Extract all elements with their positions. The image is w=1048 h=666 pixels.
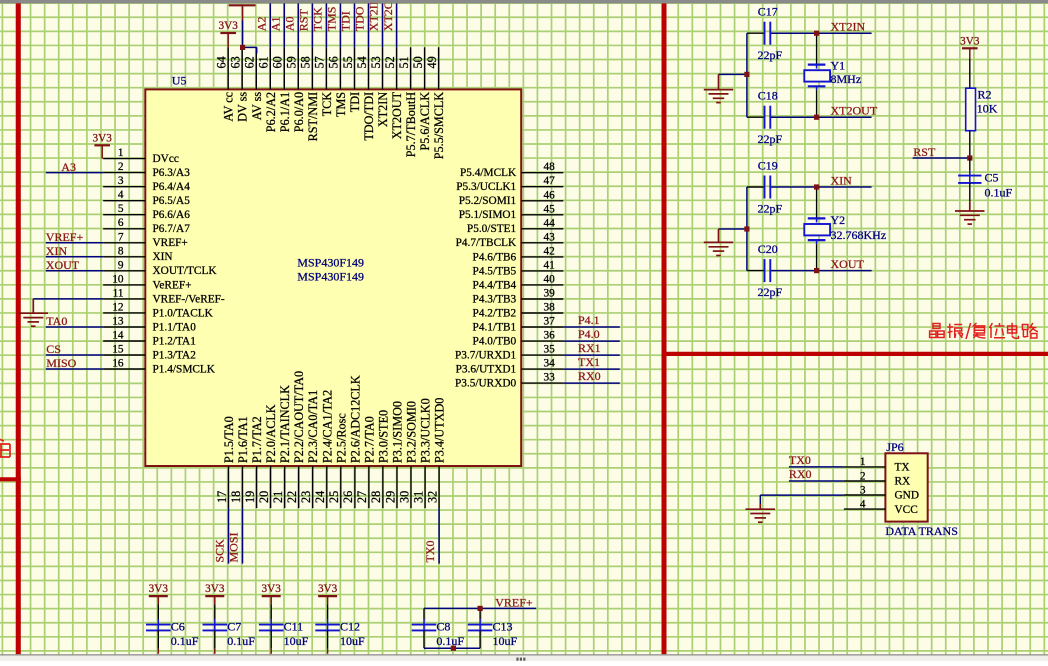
U5 pin 41 (P4.5/TB5) xyxy=(473,259,564,277)
U5 pin 48 (P5.4/MCLK) xyxy=(460,161,563,179)
wire net RX0 xyxy=(789,480,844,482)
wire net VREF+ (pin 7) xyxy=(46,242,103,244)
IC U5 MSP430F149 body xyxy=(145,89,521,466)
wire XIN row xyxy=(747,186,765,188)
capacitor C17 xyxy=(758,5,783,62)
svg-text:A2: A2 xyxy=(255,17,269,32)
svg-text:P1.5/TA0: P1.5/TA0 xyxy=(222,416,236,463)
svg-text:18: 18 xyxy=(229,491,243,503)
svg-text:SCK: SCK xyxy=(212,539,226,563)
wire net A0 (pin 59 to top) xyxy=(297,3,299,48)
svg-text:P1.6/TA1: P1.6/TA1 xyxy=(236,416,250,463)
U5 pin 52 (XT2OUT) xyxy=(383,47,404,139)
svg-text:6: 6 xyxy=(118,217,124,229)
svg-text:U5: U5 xyxy=(172,74,187,88)
svg-text:0.1uF: 0.1uF xyxy=(227,634,255,648)
U5 pin 43 (P4.7/TBCLK) xyxy=(456,231,564,249)
junction bottom wire xyxy=(451,646,456,651)
svg-text:CS: CS xyxy=(46,342,61,356)
U5 pin 14 (P1.2/TA1) xyxy=(103,330,196,348)
svg-text:36: 36 xyxy=(544,330,556,342)
U5 pin 26 (P2.6/ADC12CLK) xyxy=(341,375,362,508)
JP6 pin 3 (GND) xyxy=(844,484,919,501)
capacitor C18 xyxy=(758,89,783,146)
section title crystal/reset (Chinese) xyxy=(930,323,1038,339)
svg-text:P3.0/STE0: P3.0/STE0 xyxy=(376,410,390,463)
svg-text:MOSI: MOSI xyxy=(226,532,240,562)
power stub above pin 63 xyxy=(229,4,256,6)
svg-text:22pF: 22pF xyxy=(758,201,783,215)
wire XT2IN row xyxy=(747,32,765,34)
U5 pin 53 (XT2IN) xyxy=(369,47,390,127)
U5 pin 55 (TDI) xyxy=(341,47,362,112)
svg-text:C7: C7 xyxy=(227,620,241,634)
U5 pin 60 (P6.1/A1) xyxy=(271,47,292,132)
svg-text:19: 19 xyxy=(243,491,257,503)
svg-text:2: 2 xyxy=(860,470,866,482)
U5 pin 35 (P3.7/URXD1) xyxy=(455,344,563,362)
svg-text:0.1uF: 0.1uF xyxy=(171,634,199,648)
svg-text:P5.4/MCLK: P5.4/MCLK xyxy=(460,167,517,179)
svg-text:XT2IN: XT2IN xyxy=(376,92,390,127)
wire VREF+ top xyxy=(424,607,536,609)
svg-text:P5.0/STE1: P5.0/STE1 xyxy=(467,223,516,235)
svg-text:TX1: TX1 xyxy=(578,355,600,369)
U5 pin 6 (P6.7/A7) xyxy=(103,217,190,235)
svg-text:P3.1/SIMO0: P3.1/SIMO0 xyxy=(391,401,405,463)
U5 pin 11 (VREF-/VeREF-) xyxy=(103,287,225,305)
svg-text:P2.3/CA0/TA1: P2.3/CA0/TA1 xyxy=(306,390,320,463)
svg-text:4: 4 xyxy=(118,189,124,201)
U5 pin 33 (P3.5/URXD0) xyxy=(455,372,563,390)
U5 pin 16 (P1.4/SMCLK) xyxy=(103,358,216,376)
wire net MISO (pin 16) xyxy=(46,368,103,370)
wire C8-C13 bottom xyxy=(424,647,480,649)
svg-text:25: 25 xyxy=(327,491,341,503)
U5 pin 8 (XIN) xyxy=(103,245,172,263)
U5 pin 42 (P4.6/TB6) xyxy=(473,245,564,263)
svg-text:P3.3/UCLK0: P3.3/UCLK0 xyxy=(419,398,433,463)
svg-text:P2.6/ADC12CLK: P2.6/ADC12CLK xyxy=(348,375,362,463)
wire net TMS (pin 56 to top) xyxy=(339,3,341,48)
svg-text:39: 39 xyxy=(544,288,556,300)
svg-text:P3.2/SOMI0: P3.2/SOMI0 xyxy=(405,401,419,463)
svg-text:31: 31 xyxy=(411,491,425,503)
svg-text:P4.6/TB6: P4.6/TB6 xyxy=(473,251,517,263)
svg-text:P6.6/A6: P6.6/A6 xyxy=(153,209,191,221)
svg-text:RX0: RX0 xyxy=(789,467,812,481)
svg-text:P5.5/SMCLK: P5.5/SMCLK xyxy=(432,92,446,160)
svg-text:64: 64 xyxy=(215,56,229,68)
splitter dots xyxy=(516,658,518,661)
svg-text:P5.3/UCLK1: P5.3/UCLK1 xyxy=(456,181,516,193)
U5 pin 63 (DV ss) xyxy=(229,47,250,122)
U5 pin 57 (TCK) xyxy=(313,47,334,116)
svg-text:33: 33 xyxy=(544,372,556,384)
U5 pin 40 (P4.4/TB4) xyxy=(473,273,564,291)
U5 pin 28 (P3.0/STE0) xyxy=(369,410,390,508)
svg-text:3V3: 3V3 xyxy=(93,132,113,144)
svg-text:29: 29 xyxy=(383,491,397,503)
U5 pin 34 (P3.6/UTXD1) xyxy=(456,358,564,376)
junction XT2OUT xyxy=(814,115,819,120)
svg-text:22pF: 22pF xyxy=(758,48,783,62)
svg-text:13: 13 xyxy=(112,316,124,328)
wire net P4.0 (pin 36) xyxy=(563,340,620,342)
svg-text:4: 4 xyxy=(860,498,866,510)
svg-text:41: 41 xyxy=(544,259,555,271)
svg-text:10K: 10K xyxy=(977,101,998,115)
svg-text:C18: C18 xyxy=(758,89,778,103)
svg-text:7: 7 xyxy=(118,231,124,243)
U5 pin 20 (P2.0/ACLK) xyxy=(257,404,278,508)
U5 pin 47 (P5.3/UCLK1) xyxy=(456,175,563,193)
svg-text:27: 27 xyxy=(355,491,369,503)
U5 pin 54 (TDO/TDI) xyxy=(355,47,376,140)
U5 pin 49 (P5.5/SMCLK) xyxy=(425,47,446,159)
svg-text:20: 20 xyxy=(257,491,271,503)
ground (crystal Y2) xyxy=(718,229,720,242)
wire net XIN (pin 8) xyxy=(46,256,103,258)
capacitor C7 0.1uF xyxy=(203,604,256,654)
wire net CS (pin 15) xyxy=(46,354,103,356)
wire net TA0 (pin 13) xyxy=(46,326,103,328)
svg-text:48: 48 xyxy=(544,161,556,173)
svg-text:32.768KHz: 32.768KHz xyxy=(831,228,887,242)
JP6 pin 4 (VCC) xyxy=(844,498,918,515)
svg-text:P2.1/TAINCLK: P2.1/TAINCLK xyxy=(278,385,292,463)
svg-text:10uF: 10uF xyxy=(284,634,309,648)
svg-text:AV cc: AV cc xyxy=(222,91,236,121)
U5 pin 46 (P5.2/SOMI1) xyxy=(459,189,564,207)
svg-text:P3.7/URXD1: P3.7/URXD1 xyxy=(455,350,516,362)
svg-text:37: 37 xyxy=(544,316,556,328)
capacitor C8 0.1uF xyxy=(412,608,465,648)
wire XT2OUT row xyxy=(747,116,765,118)
svg-text:10uF: 10uF xyxy=(493,634,518,648)
U5 pin 61 (P6.2/A2) xyxy=(257,47,278,132)
svg-text:P2.4/CA1/TA2: P2.4/CA1/TA2 xyxy=(320,390,334,463)
svg-text:38: 38 xyxy=(544,302,556,314)
svg-text:P4.0: P4.0 xyxy=(578,327,600,341)
wire net TX1 (pin 34) xyxy=(563,368,620,370)
svg-text:TDO/TDI: TDO/TDI xyxy=(362,92,376,141)
capacitor C13 10uF xyxy=(468,608,518,648)
svg-text:P4.2/TB2: P4.2/TB2 xyxy=(473,307,517,319)
svg-text:30: 30 xyxy=(397,491,411,503)
wire net RX0 (pin 33) xyxy=(563,382,620,384)
svg-text:3: 3 xyxy=(860,484,866,496)
svg-text:TX: TX xyxy=(895,462,910,474)
svg-text:46: 46 xyxy=(544,189,556,201)
crystal Y2 xyxy=(804,187,886,271)
wire net XT2IN (pin 53 to top) xyxy=(382,3,384,48)
svg-text:3V3: 3V3 xyxy=(149,583,169,595)
svg-text:12: 12 xyxy=(112,301,124,313)
U5 pin 62 (AV ss) xyxy=(243,47,264,120)
svg-text:TDI: TDI xyxy=(348,92,362,112)
svg-text:P1.2/TA1: P1.2/TA1 xyxy=(153,335,196,347)
svg-text:1: 1 xyxy=(860,456,866,468)
svg-text:0.1uF: 0.1uF xyxy=(985,185,1013,199)
svg-text:XT2OUT: XT2OUT xyxy=(390,91,404,139)
svg-text:22: 22 xyxy=(285,491,299,503)
junction XOUT xyxy=(814,268,819,273)
svg-text:XOUT/TCLK: XOUT/TCLK xyxy=(153,265,218,277)
svg-text:8MHz: 8MHz xyxy=(831,72,862,86)
svg-text:0.1uF: 0.1uF xyxy=(436,634,464,648)
svg-text:C19: C19 xyxy=(758,159,778,173)
wire net RX1 (pin 35) xyxy=(563,354,620,356)
svg-text:RX1: RX1 xyxy=(578,341,601,355)
U5 pin 44 (P5.0/STE1) xyxy=(467,217,563,235)
svg-text:P1.7/TA2: P1.7/TA2 xyxy=(250,416,264,463)
svg-text:AV ss: AV ss xyxy=(250,92,264,121)
svg-text:VeREF+: VeREF+ xyxy=(153,279,192,291)
svg-text:XT2IN: XT2IN xyxy=(831,20,866,34)
svg-text:8: 8 xyxy=(118,245,124,257)
U5 pin 10 (VeREF+) xyxy=(103,273,191,291)
U5 pin 23 (P2.3/CA0/TA1) xyxy=(299,390,320,508)
svg-text:C13: C13 xyxy=(493,620,513,634)
svg-text:62: 62 xyxy=(243,56,257,68)
wire pin 63 up xyxy=(242,21,244,48)
wire net SCK (pin 17) xyxy=(228,508,230,563)
svg-text:R2: R2 xyxy=(978,88,992,102)
capacitor C12 10uF xyxy=(315,604,365,654)
svg-text:22pF: 22pF xyxy=(758,132,783,146)
svg-text:P3.4/UTXD0: P3.4/UTXD0 xyxy=(433,398,447,463)
U5 pin 45 (P5.1/SIMO1) xyxy=(459,203,564,221)
svg-text:TX0: TX0 xyxy=(789,453,811,467)
wire net TCK (pin 57 to top) xyxy=(325,3,327,48)
svg-text:XIN: XIN xyxy=(153,251,173,263)
svg-text:XOUT: XOUT xyxy=(831,257,865,271)
U5 pin 37 (P4.1/TB1) xyxy=(473,316,564,334)
U5 pin 15 (P1.3/TA2) xyxy=(103,344,196,362)
connector JP6 body xyxy=(885,453,927,521)
svg-text:XIN: XIN xyxy=(831,174,853,188)
svg-text:5: 5 xyxy=(118,203,124,215)
section divider line right vertical xyxy=(662,3,667,655)
U5 pin 22 (P2.2/CAOUT/TA0) xyxy=(285,371,306,508)
svg-text:P6.0/A0: P6.0/A0 xyxy=(292,92,306,132)
svg-text:3V3: 3V3 xyxy=(318,583,338,595)
wire net TX0 (pin 32) xyxy=(438,508,440,563)
wire XOUT row xyxy=(747,270,765,272)
svg-text:3: 3 xyxy=(118,175,124,187)
svg-text:58: 58 xyxy=(299,56,313,68)
wire net TDI (pin 55 to top) xyxy=(354,3,356,48)
capacitor C6 0.1uF xyxy=(146,604,199,654)
capacitor C5 xyxy=(958,158,1012,201)
junction pin 63 xyxy=(240,45,245,50)
svg-text:C6: C6 xyxy=(171,620,185,634)
svg-text:P4.1: P4.1 xyxy=(578,313,600,327)
svg-text:10: 10 xyxy=(112,273,124,285)
svg-text:TA0: TA0 xyxy=(46,314,67,328)
svg-text:44: 44 xyxy=(544,217,556,229)
svg-text:10uF: 10uF xyxy=(340,634,365,648)
wire ground branch 2 xyxy=(719,228,747,230)
svg-text:P4.5/TB5: P4.5/TB5 xyxy=(473,265,517,277)
svg-text:C12: C12 xyxy=(340,620,360,634)
svg-text:DVcc: DVcc xyxy=(153,153,179,165)
U5 pin 27 (P2.7/TA0) xyxy=(355,416,376,508)
U5 pin 1 (DVcc) xyxy=(103,147,179,165)
svg-text:C5: C5 xyxy=(985,170,999,184)
svg-text:DATA TRANS: DATA TRANS xyxy=(885,524,958,538)
svg-text:A1: A1 xyxy=(269,17,283,32)
ground (pin 11) xyxy=(32,299,34,313)
U5 pin 39 (P4.3/TB3) xyxy=(473,288,564,306)
svg-text:53: 53 xyxy=(369,56,383,68)
svg-text:TDI: TDI xyxy=(339,11,353,31)
svg-text:P5.2/SOMI1: P5.2/SOMI1 xyxy=(459,195,516,207)
svg-text:RST/NMI: RST/NMI xyxy=(306,92,320,141)
crystal Y1 xyxy=(804,33,861,117)
svg-text:2: 2 xyxy=(118,161,124,173)
wire net XT2OUT (pin 52 to top) xyxy=(396,3,398,48)
U5 pin 30 (P3.2/SOMI0) xyxy=(397,401,418,508)
ground (crystal Y1) xyxy=(718,74,720,89)
svg-text:P1.1/TA0: P1.1/TA0 xyxy=(153,321,197,333)
svg-text:P1.0/TACLK: P1.0/TACLK xyxy=(153,307,214,319)
svg-text:A0: A0 xyxy=(283,17,297,32)
svg-text:C20: C20 xyxy=(758,242,778,256)
junction XT2IN xyxy=(814,31,819,36)
svg-text:22pF: 22pF xyxy=(758,285,783,299)
svg-text:26: 26 xyxy=(341,491,355,503)
section divider stub left xyxy=(0,477,21,481)
ground (C5) xyxy=(969,201,971,211)
wire net XOUT (pin 9) xyxy=(46,270,103,272)
svg-text:DV ss: DV ss xyxy=(236,92,250,122)
svg-text:VREF+: VREF+ xyxy=(46,230,84,244)
svg-text:P1.4/SMCLK: P1.4/SMCLK xyxy=(153,363,216,375)
svg-text:55: 55 xyxy=(341,56,355,68)
U5 pin 38 (P4.2/TB2) xyxy=(473,302,564,320)
U5 pin 7 (VREF+) xyxy=(103,231,188,249)
svg-text:TCK: TCK xyxy=(320,92,334,117)
U5 pin 51 (P5.7/TBoutH) xyxy=(397,47,418,157)
svg-text:54: 54 xyxy=(355,56,369,68)
svg-text:XT2OUT: XT2OUT xyxy=(381,0,395,31)
U5 pin 5 (P6.6/A6) xyxy=(103,203,190,221)
svg-text:47: 47 xyxy=(544,175,556,187)
section divider line left vertical xyxy=(16,3,21,655)
junction XIN xyxy=(814,184,819,189)
svg-text:P4.7/TBCLK: P4.7/TBCLK xyxy=(456,237,517,249)
svg-text:50: 50 xyxy=(411,56,425,68)
wire net A2 (pin 61 to top) xyxy=(269,3,271,48)
svg-text:XIN: XIN xyxy=(46,244,68,258)
U5 pin 56 (TMS) xyxy=(327,47,348,117)
wire net RST xyxy=(913,157,970,159)
U5 pin 36 (P4.0/TB0) xyxy=(473,330,564,348)
U5 pin 17 (P1.5/TA0) xyxy=(215,416,236,508)
svg-text:16: 16 xyxy=(112,358,124,370)
U5 pin 58 (RST/NMI) xyxy=(299,47,320,141)
svg-text:34: 34 xyxy=(544,358,556,370)
wire net P4.1 (pin 37) xyxy=(563,326,620,328)
svg-text:P6.7/A7: P6.7/A7 xyxy=(153,223,191,235)
U5 pin 12 (P1.0/TACLK) xyxy=(103,301,213,319)
svg-text:VREF+: VREF+ xyxy=(495,596,533,610)
junction VREF+ (C13 top) xyxy=(478,606,483,611)
wire net TDO (pin 54 to top) xyxy=(368,3,370,48)
svg-text:VREF-/VeREF-: VREF-/VeREF- xyxy=(153,293,225,305)
svg-text:9: 9 xyxy=(118,259,124,271)
svg-text:P5.6/ACLK: P5.6/ACLK xyxy=(418,92,432,151)
U5 pin 31 (P3.3/UCLK0) xyxy=(411,398,432,508)
svg-text:61: 61 xyxy=(257,56,271,68)
section title fragment (cut-off red Chinese char) xyxy=(0,438,10,457)
svg-text:TDO: TDO xyxy=(353,6,367,31)
bottom gray strip xyxy=(0,654,1048,655)
svg-text:P3.6/UTXD1: P3.6/UTXD1 xyxy=(456,364,517,376)
svg-text:VREF+: VREF+ xyxy=(153,237,188,249)
U5 pin 32 (P3.4/UTXD0) xyxy=(425,398,446,508)
wire pin 63 to pin 62 xyxy=(243,46,257,48)
svg-text:Y2: Y2 xyxy=(831,213,846,227)
svg-text:P2.5/Rosc: P2.5/Rosc xyxy=(334,413,348,463)
svg-text:60: 60 xyxy=(271,56,285,68)
wire JP6 pin 3 to ground xyxy=(760,494,844,496)
svg-text:P6.1/A1: P6.1/A1 xyxy=(278,92,292,132)
svg-text:MSP430F149: MSP430F149 xyxy=(297,270,364,284)
svg-text:P6.4/A4: P6.4/A4 xyxy=(153,181,191,193)
wire net RST (pin 58 to top) xyxy=(311,3,313,48)
svg-text:MISO: MISO xyxy=(46,356,76,370)
svg-text:P4.1/TB1: P4.1/TB1 xyxy=(473,321,517,333)
svg-text:RX0: RX0 xyxy=(578,369,601,383)
svg-text:RST: RST xyxy=(913,145,936,159)
svg-text:VCC: VCC xyxy=(895,504,918,516)
svg-text:P4.0/TB0: P4.0/TB0 xyxy=(473,336,517,348)
svg-text:TCK: TCK xyxy=(311,7,325,31)
wire net MOSI (pin 18) xyxy=(242,508,244,563)
svg-text:3V3: 3V3 xyxy=(219,20,239,32)
svg-text:TMS: TMS xyxy=(325,7,339,32)
svg-text:11: 11 xyxy=(113,287,124,299)
svg-text:3V3: 3V3 xyxy=(960,35,980,47)
U5 pin 50 (P5.6/ACLK) xyxy=(411,47,432,150)
svg-text:C17: C17 xyxy=(758,5,778,19)
capacitor C11 10uF xyxy=(259,604,309,654)
svg-text:24: 24 xyxy=(313,491,327,503)
svg-text:56: 56 xyxy=(327,56,341,68)
wire net TX0 xyxy=(789,466,844,468)
svg-text:P4.4/TB4: P4.4/TB4 xyxy=(473,279,517,291)
wire net A1 (pin 60 to top) xyxy=(283,3,285,48)
svg-text:C11: C11 xyxy=(284,620,304,634)
svg-text:XT2OUT: XT2OUT xyxy=(831,104,878,118)
svg-text:3V3: 3V3 xyxy=(205,583,225,595)
section divider line right horizontal xyxy=(662,352,1048,356)
JP6 pin 1 (TX) xyxy=(844,456,910,473)
svg-text:P1.3/TA2: P1.3/TA2 xyxy=(153,349,197,361)
svg-text:40: 40 xyxy=(544,273,556,285)
junction bus/ground xyxy=(744,72,749,77)
svg-text:P2.7/TA0: P2.7/TA0 xyxy=(362,416,376,463)
svg-text:15: 15 xyxy=(112,344,124,356)
svg-text:28: 28 xyxy=(369,491,383,503)
wire net A3 (pin 2) xyxy=(46,172,103,174)
U5 pin 64 (AV cc) xyxy=(215,47,236,121)
svg-text:1: 1 xyxy=(118,147,124,159)
svg-text:21: 21 xyxy=(271,491,285,503)
